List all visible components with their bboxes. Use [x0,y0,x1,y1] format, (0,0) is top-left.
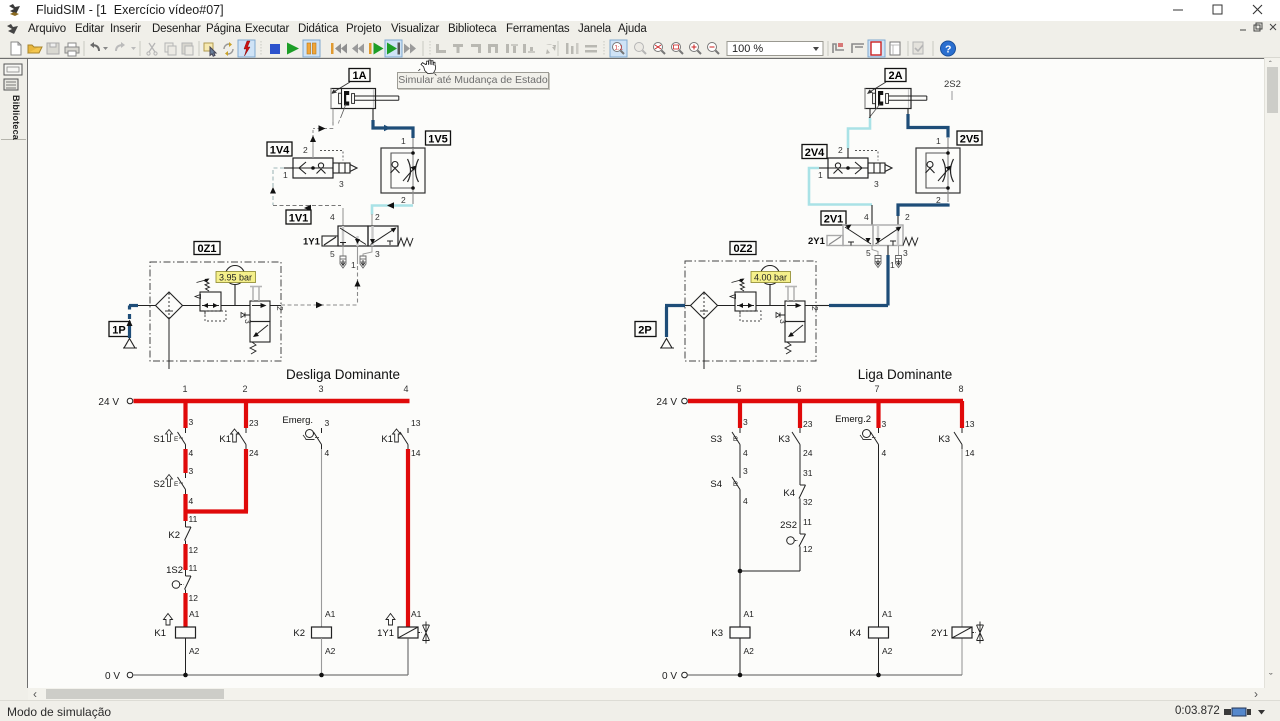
wire rung8 (gray) [961,449,963,675]
contact K3 rung8 [938,419,974,458]
redo (disabled) [116,45,123,51]
relay coil K4 [849,609,892,656]
help [941,41,956,56]
svg-text:2: 2 [275,306,285,311]
svg-text:7: 7 [874,384,879,394]
spring [903,238,918,246]
svg-text:A1: A1 [882,609,893,619]
label 1V5 [426,131,451,146]
svg-text:2A: 2A [888,70,902,82]
menu bar [0,21,1280,39]
svg-text:E: E [733,436,738,443]
svg-text:1S2: 1S2 [166,565,183,576]
svg-text:1: 1 [283,170,288,180]
svg-text:1:1: 1:1 [615,46,624,52]
svg-text:A2: A2 [325,646,336,656]
undo [92,45,99,51]
wire rung4 (energized) [406,449,410,627]
zoom out [708,43,717,52]
svg-text:11: 11 [189,563,198,573]
title bar [0,0,1280,21]
contact S1 [153,428,185,449]
svg-text:0 V: 0 V [662,671,677,682]
toolbar [0,39,1280,58]
svg-text:4: 4 [882,448,887,458]
svg-text:K4: K4 [783,488,795,499]
svg-text:A1: A1 [325,609,336,619]
svg-text:24 V: 24 V [98,397,119,408]
gauge reading 3.95 bar [216,272,256,283]
5/2-way valve 1V1 [303,208,413,270]
svg-text:4: 4 [330,212,335,222]
label 2V5 [957,131,982,146]
pressure gauge 0Z2 [761,266,780,306]
svg-text:3: 3 [743,466,748,476]
service unit 0Z1 frame [150,262,281,361]
svg-text:K3: K3 [778,434,790,445]
svg-text:1: 1 [182,384,187,394]
svg-text:1Y1: 1Y1 [303,237,321,248]
on/off valve 0Z1 [241,287,285,355]
svg-text:14: 14 [965,448,975,458]
svg-text:5: 5 [736,384,741,394]
svg-text:3: 3 [882,419,887,429]
svg-text:12: 12 [189,545,199,555]
svg-text:2: 2 [905,212,910,222]
svg-text:13: 13 [965,419,975,429]
wire col5 to coil [739,494,741,675]
wire 2V1 port1 supply (pressurized) [816,246,888,306]
contact K3 rung6 [778,419,812,458]
one-way flow control 2V5 [916,136,960,205]
pressure regulator 0Z1 [195,279,250,322]
svg-text:1: 1 [401,136,406,146]
svg-text:3: 3 [339,179,344,189]
svg-text:K2: K2 [293,628,305,639]
paste disabled [182,43,192,54]
contact S3 [710,428,740,449]
contact S4 [710,449,740,494]
5/2-way valve 2V1 [808,205,918,270]
pause (checked) [303,40,320,57]
svg-text:4.00 bar: 4.00 bar [754,273,787,283]
print [65,47,79,53]
svg-text:4: 4 [189,496,194,506]
wire 2V4 port1 to 2V1 port4 (vented cyan) [809,168,872,205]
svg-text:3: 3 [778,319,788,324]
zoom rect [672,43,681,52]
svg-text:3: 3 [743,417,748,427]
svg-text:K1: K1 [219,434,231,445]
label 0Z1 [194,242,220,256]
svg-text:4: 4 [864,212,869,222]
svg-text:2V4: 2V4 [805,147,825,159]
svg-text:1: 1 [818,170,823,180]
filter 0Z1 [156,292,201,369]
wire red stubs [740,401,962,428]
svg-text:14: 14 [411,448,421,458]
svg-text:4: 4 [743,496,748,506]
svg-text:S4: S4 [710,479,722,490]
svg-text:2S2: 2S2 [944,79,961,90]
label 2S2 sensor mark [944,79,961,100]
pressure gauge 0Z1 [226,266,245,306]
label 2A [867,69,906,95]
silencer at 2V1 port5 [872,246,881,268]
svg-text:100 %: 100 % [732,43,763,55]
library rail [0,58,28,688]
align icons (disabled gray) [436,44,446,53]
svg-text:Emerg.2: Emerg.2 [835,414,871,425]
wire col1 segments [183,401,187,627]
svg-text:24: 24 [803,448,813,458]
hand cursor overlay [408,52,448,92]
stop blue [270,44,280,54]
rotate [224,44,233,54]
svg-text:2V5: 2V5 [960,134,980,146]
svg-text:A2: A2 [189,646,200,656]
rewind [352,44,358,54]
svg-text:4: 4 [743,448,748,458]
svg-text:1V1: 1V1 [289,213,309,225]
disabled check page [913,42,923,54]
contact K4 NC rung6 [783,449,812,507]
svg-text:E: E [733,481,738,488]
svg-text:3: 3 [318,384,323,394]
wire 1A right port to 1V5 (pressurized) [373,109,413,148]
rung numbers [182,384,408,394]
svg-text:1Y1: 1Y1 [377,628,394,639]
wire col5 below junction [739,638,741,675]
zoom in [690,43,699,52]
node main line left [129,305,156,307]
vertical scrollbar [1264,58,1280,688]
contact S2 [153,473,185,494]
node 0V left [105,671,408,682]
solenoid 1Y1 [322,236,338,246]
svg-text:11: 11 [189,514,198,524]
contact 2S2 rung6 [780,502,813,554]
svg-text:E: E [174,436,179,443]
svg-text:Desliga Dominante: Desliga Dominante [286,367,400,382]
svg-text:Emerg.: Emerg. [282,415,313,426]
wire 1A left port (pilot, dashed) [310,109,333,159]
svg-text:12: 12 [803,544,813,554]
svg-text:24 V: 24 V [656,397,677,408]
tooltip [397,72,549,89]
svg-text:8: 8 [958,384,963,394]
quick exhaust valve 2V4 [818,145,892,189]
gauge reading 4.00 bar [751,272,791,283]
one-way flow control 1V5 [381,136,425,205]
new [11,42,21,55]
wire 2A left port to 2V4 port2 (vented cyan) [848,109,870,158]
svg-text:Liga Dominante: Liga Dominante [858,367,953,382]
pin labels col5 [743,417,754,656]
rung numbers [736,384,963,394]
svg-text:6: 6 [796,384,801,394]
svg-text:1A: 1A [352,70,366,82]
svg-text:4: 4 [403,384,408,394]
svg-text:3: 3 [325,418,330,428]
label 2V1 [821,211,846,226]
svg-text:23: 23 [249,418,259,428]
cylinder 2A [865,89,927,119]
svg-text:1V4: 1V4 [270,145,290,157]
svg-text:S1: S1 [153,434,165,445]
svg-text:K1: K1 [154,628,166,639]
svg-text:1: 1 [890,260,895,270]
rewind-start [331,43,334,54]
zoom fit [654,43,663,52]
node 0V right [662,671,962,682]
wire rung6 joins col5 [740,549,800,571]
svg-text:2V1: 2V1 [824,214,844,226]
lightning (checked) [238,40,255,57]
wire 24V rail (energized) [688,399,963,403]
solenoid coil 2Y1 [931,622,983,644]
svg-text:5: 5 [866,248,871,258]
status bar [0,700,1280,720]
svg-text:0Z2: 0Z2 [734,243,753,255]
wire 2V5 port2 to 2V1 port2 (pressurized) [898,193,948,225]
svg-text:11: 11 [803,517,812,527]
on/off valve 0Z2 [776,287,820,355]
svg-text:31: 31 [803,468,813,478]
svg-text:S2: S2 [153,479,165,490]
svg-text:A1: A1 [744,609,755,619]
label 1V4 [267,142,292,157]
svg-text:5: 5 [330,249,335,259]
node 24V left [98,397,132,408]
contact K1 rung4 [381,418,420,458]
quick exhaust valve 1V4 [283,145,357,189]
zoom combo [727,42,823,56]
label 0Z2 [730,242,756,256]
svg-text:24: 24 [249,448,259,458]
wire 1V4 port1 pilot loop to 1V1 port4 [270,168,341,211]
svg-text:2Y1: 2Y1 [808,236,826,247]
wire 1V1 port1 supply (dashed animated) [281,246,361,308]
svg-text:32: 32 [803,497,813,507]
contact 1S2 [166,565,191,593]
svg-text:3: 3 [874,179,879,189]
cylinder 1A [331,89,399,124]
svg-text:0Z1: 0Z1 [198,243,217,255]
svg-text:K3: K3 [711,628,723,639]
svg-text:A1: A1 [411,609,422,619]
open [28,47,42,53]
play-pause step [369,43,372,54]
play green [287,43,299,55]
svg-text:2: 2 [810,306,820,311]
svg-text:2Y1: 2Y1 [931,628,948,639]
cut disabled [149,43,155,52]
copy disabled [165,43,173,52]
contact K1 rung2 [219,418,258,458]
relay coil K3 [711,627,750,639]
svg-text:K2: K2 [168,530,180,541]
silencer at 2V1 port3 [896,246,902,268]
svg-text:?: ? [945,44,951,56]
svg-text:2: 2 [401,195,406,205]
solenoid coil 1Y1 [377,609,429,675]
contact Emerg rung3 [282,415,329,458]
svg-text:3: 3 [903,248,908,258]
contact Emerg.2 rung7 [835,414,886,458]
contact K2 NC [168,521,191,544]
svg-text:A2: A2 [744,646,755,656]
svg-text:12: 12 [189,593,199,603]
wire 24V rail (energized) [134,399,410,403]
ffwd [404,44,410,54]
label 1P [109,322,130,337]
filter 0Z2 [685,292,735,369]
svg-text:E: E [174,481,179,488]
pressure regulator 0Z2 [730,279,785,322]
svg-text:2: 2 [303,145,308,155]
svg-text:3: 3 [189,417,194,427]
wire 2A right port to 2V5 port1 (pressurized) [908,109,948,148]
svg-text:2: 2 [375,212,380,222]
svg-text:1: 1 [936,136,941,146]
svg-text:13: 13 [411,418,421,428]
wire 1V5 port2 to 1V1 port2 (vented cyan) [372,193,413,226]
relay coil K1 [154,614,195,676]
compressed air source 2P [660,306,685,349]
step (checked) [385,40,402,57]
hand cursor [418,60,436,75]
pin labels col1 [189,417,200,656]
svg-text:1: 1 [351,260,356,270]
solenoid 2Y1 [827,236,843,246]
svg-text:2: 2 [838,145,843,155]
zoom 1:1 (checked) [610,40,627,57]
layout icons [833,44,844,53]
svg-text:K1: K1 [381,434,393,445]
svg-text:0 V: 0 V [105,671,120,682]
svg-text:3.95 bar: 3.95 bar [219,273,252,283]
select tool [204,43,213,51]
label 1V1 [286,210,311,225]
silencer at 1V1 port3 [360,246,372,268]
svg-text:2: 2 [242,384,247,394]
svg-text:1V5: 1V5 [428,134,448,146]
svg-text:3: 3 [375,249,380,259]
wire rung3 [321,449,323,627]
svg-text:4: 4 [189,448,194,458]
svg-text:S3: S3 [710,434,722,445]
svg-text:2S2: 2S2 [780,520,797,531]
zoom prev disabled [635,43,644,52]
silencer at 1V1 port5 [340,246,346,268]
spring [398,238,413,246]
svg-text:A1: A1 [189,609,200,619]
compressed air source 1P [123,306,137,349]
label 2P [635,322,656,337]
service unit 0Z2 frame [685,261,816,361]
svg-text:2P: 2P [638,325,651,337]
label 2V4 [802,145,827,160]
horizontal scrollbar [28,688,1264,700]
svg-text:K4: K4 [849,628,861,639]
svg-text:A2: A2 [882,646,893,656]
wire rung7 [878,449,880,675]
svg-text:3: 3 [243,319,253,324]
svg-text:K3: K3 [938,434,950,445]
label 1A [331,69,370,95]
svg-text:23: 23 [803,419,813,429]
save (disabled) [47,43,59,54]
relay coil K2 [293,609,335,675]
svg-text:3: 3 [189,466,194,476]
svg-text:4: 4 [325,448,330,458]
wire K1 jumper rung2 to rung1 [184,449,249,512]
node 24V right [656,397,687,408]
svg-text:1P: 1P [112,325,125,337]
